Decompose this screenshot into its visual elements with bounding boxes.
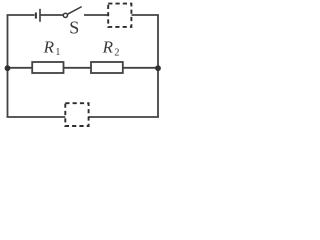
svg-text:2: 2 bbox=[114, 47, 119, 58]
svg-text:S: S bbox=[69, 17, 79, 37]
svg-text:1: 1 bbox=[55, 47, 60, 58]
svg-text:R: R bbox=[43, 38, 55, 57]
svg-text:R: R bbox=[102, 38, 114, 57]
